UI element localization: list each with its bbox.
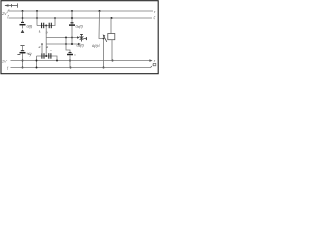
svg-text:2v': 2v'	[1, 59, 7, 64]
vertical x66	[66, 38, 70, 53]
frame border	[1, 1, 158, 74]
node dot x57 rail1	[56, 60, 58, 62]
wire below B3	[69, 55, 71, 67]
dimension arrow annotation top-left	[4, 3, 17, 7]
capacitor C2	[49, 23, 51, 29]
node dot	[22, 67, 24, 69]
vertical x112 lower	[111, 40, 113, 61]
resistor R1 box	[108, 34, 115, 40]
svg-text:ū(t): ū(t)	[27, 23, 34, 28]
node dot x36 rail2	[36, 67, 38, 69]
source glyph Q1	[17, 51, 25, 55]
node dot x72 w2	[71, 17, 73, 19]
arrow end wire B	[78, 43, 81, 45]
svg-text:ə: ə	[46, 45, 48, 49]
svg-text:Ƚ: Ƚ	[39, 30, 41, 34]
variable arrow on R1	[103, 34, 107, 41]
wire W2	[9, 17, 153, 19]
node dot x112 rail1	[112, 60, 114, 62]
node dot x112 w2	[111, 17, 113, 19]
svg-text:ə: ə	[39, 45, 41, 49]
wire A	[46, 37, 77, 39]
wire x22 to lower glyph	[22, 46, 24, 51]
svg-text:–: –	[49, 48, 52, 52]
svg-text:r: r	[154, 9, 156, 14]
rail1 arrow terminal	[149, 59, 152, 62]
node dot x55 w2	[54, 17, 56, 19]
node dot x72 wireB	[71, 43, 73, 45]
cap row2 wire	[37, 56, 58, 61]
node dot x37 top	[36, 10, 38, 12]
arrow end wire A	[77, 36, 80, 38]
node dot cap mid	[45, 25, 47, 27]
node dot x99 top	[99, 10, 101, 12]
node dot x72 top	[71, 10, 73, 12]
wire B	[46, 43, 78, 45]
node dot wireA x66	[65, 37, 67, 39]
battery source B2	[69, 23, 75, 25]
svg-text:ζ: ζ	[154, 15, 156, 19]
wire vertical x22 upper	[22, 11, 24, 22]
source glyph B3	[67, 53, 73, 55]
wire x22 lower	[22, 54, 24, 68]
crystal glyph right of arrows	[80, 34, 87, 41]
node dot rail2 x70	[70, 67, 72, 69]
node dot x104 rail2	[103, 67, 105, 69]
capacitor C1	[42, 23, 44, 29]
cap row2 left vertical	[36, 56, 38, 68]
node dot A1	[22, 10, 24, 12]
rail1	[11, 60, 151, 62]
source arrow I1 (pointing up)	[21, 30, 25, 34]
node dot x37 w2	[36, 17, 38, 19]
wire vertical x42 from wireB	[41, 44, 43, 53]
vertical x99 with jog to x103.5	[99, 11, 104, 68]
svg-text:ū₂(t): ū₂(t)	[76, 23, 84, 28]
svg-text:≈y: ≈y	[28, 52, 33, 56]
svg-text:ƒ: ƒ	[7, 66, 9, 70]
rail2	[11, 67, 151, 69]
wire top W1	[9, 10, 154, 12]
node dot wireB x66	[65, 43, 67, 45]
node dot rail1 x70	[69, 60, 71, 62]
vertical x72	[71, 11, 73, 44]
svg-text:≈: ≈	[74, 53, 76, 57]
node dot x36 rail1	[36, 60, 38, 62]
cap row1 wire	[37, 18, 55, 26]
node dot at jog	[103, 38, 105, 40]
wire below battery	[22, 26, 24, 29]
svg-text:ū(t)√: ū(t)√	[92, 43, 101, 48]
capacitor C3	[42, 53, 44, 59]
node dot	[22, 60, 24, 62]
svg-text:′⁻: ′⁻	[152, 64, 156, 68]
node dot A2	[22, 17, 24, 19]
svg-text:r: r	[154, 58, 156, 63]
capacitor C4	[49, 53, 51, 59]
node dot cap2 mid	[45, 55, 47, 57]
vertical x37	[36, 11, 38, 26]
vertical mid x46	[45, 26, 47, 57]
vertical x112 upper	[110, 18, 112, 34]
battery source B1	[20, 22, 26, 24]
rail2 end hook	[151, 66, 152, 67]
svg-text:ū₂(t): ū₂(t)	[77, 43, 85, 48]
